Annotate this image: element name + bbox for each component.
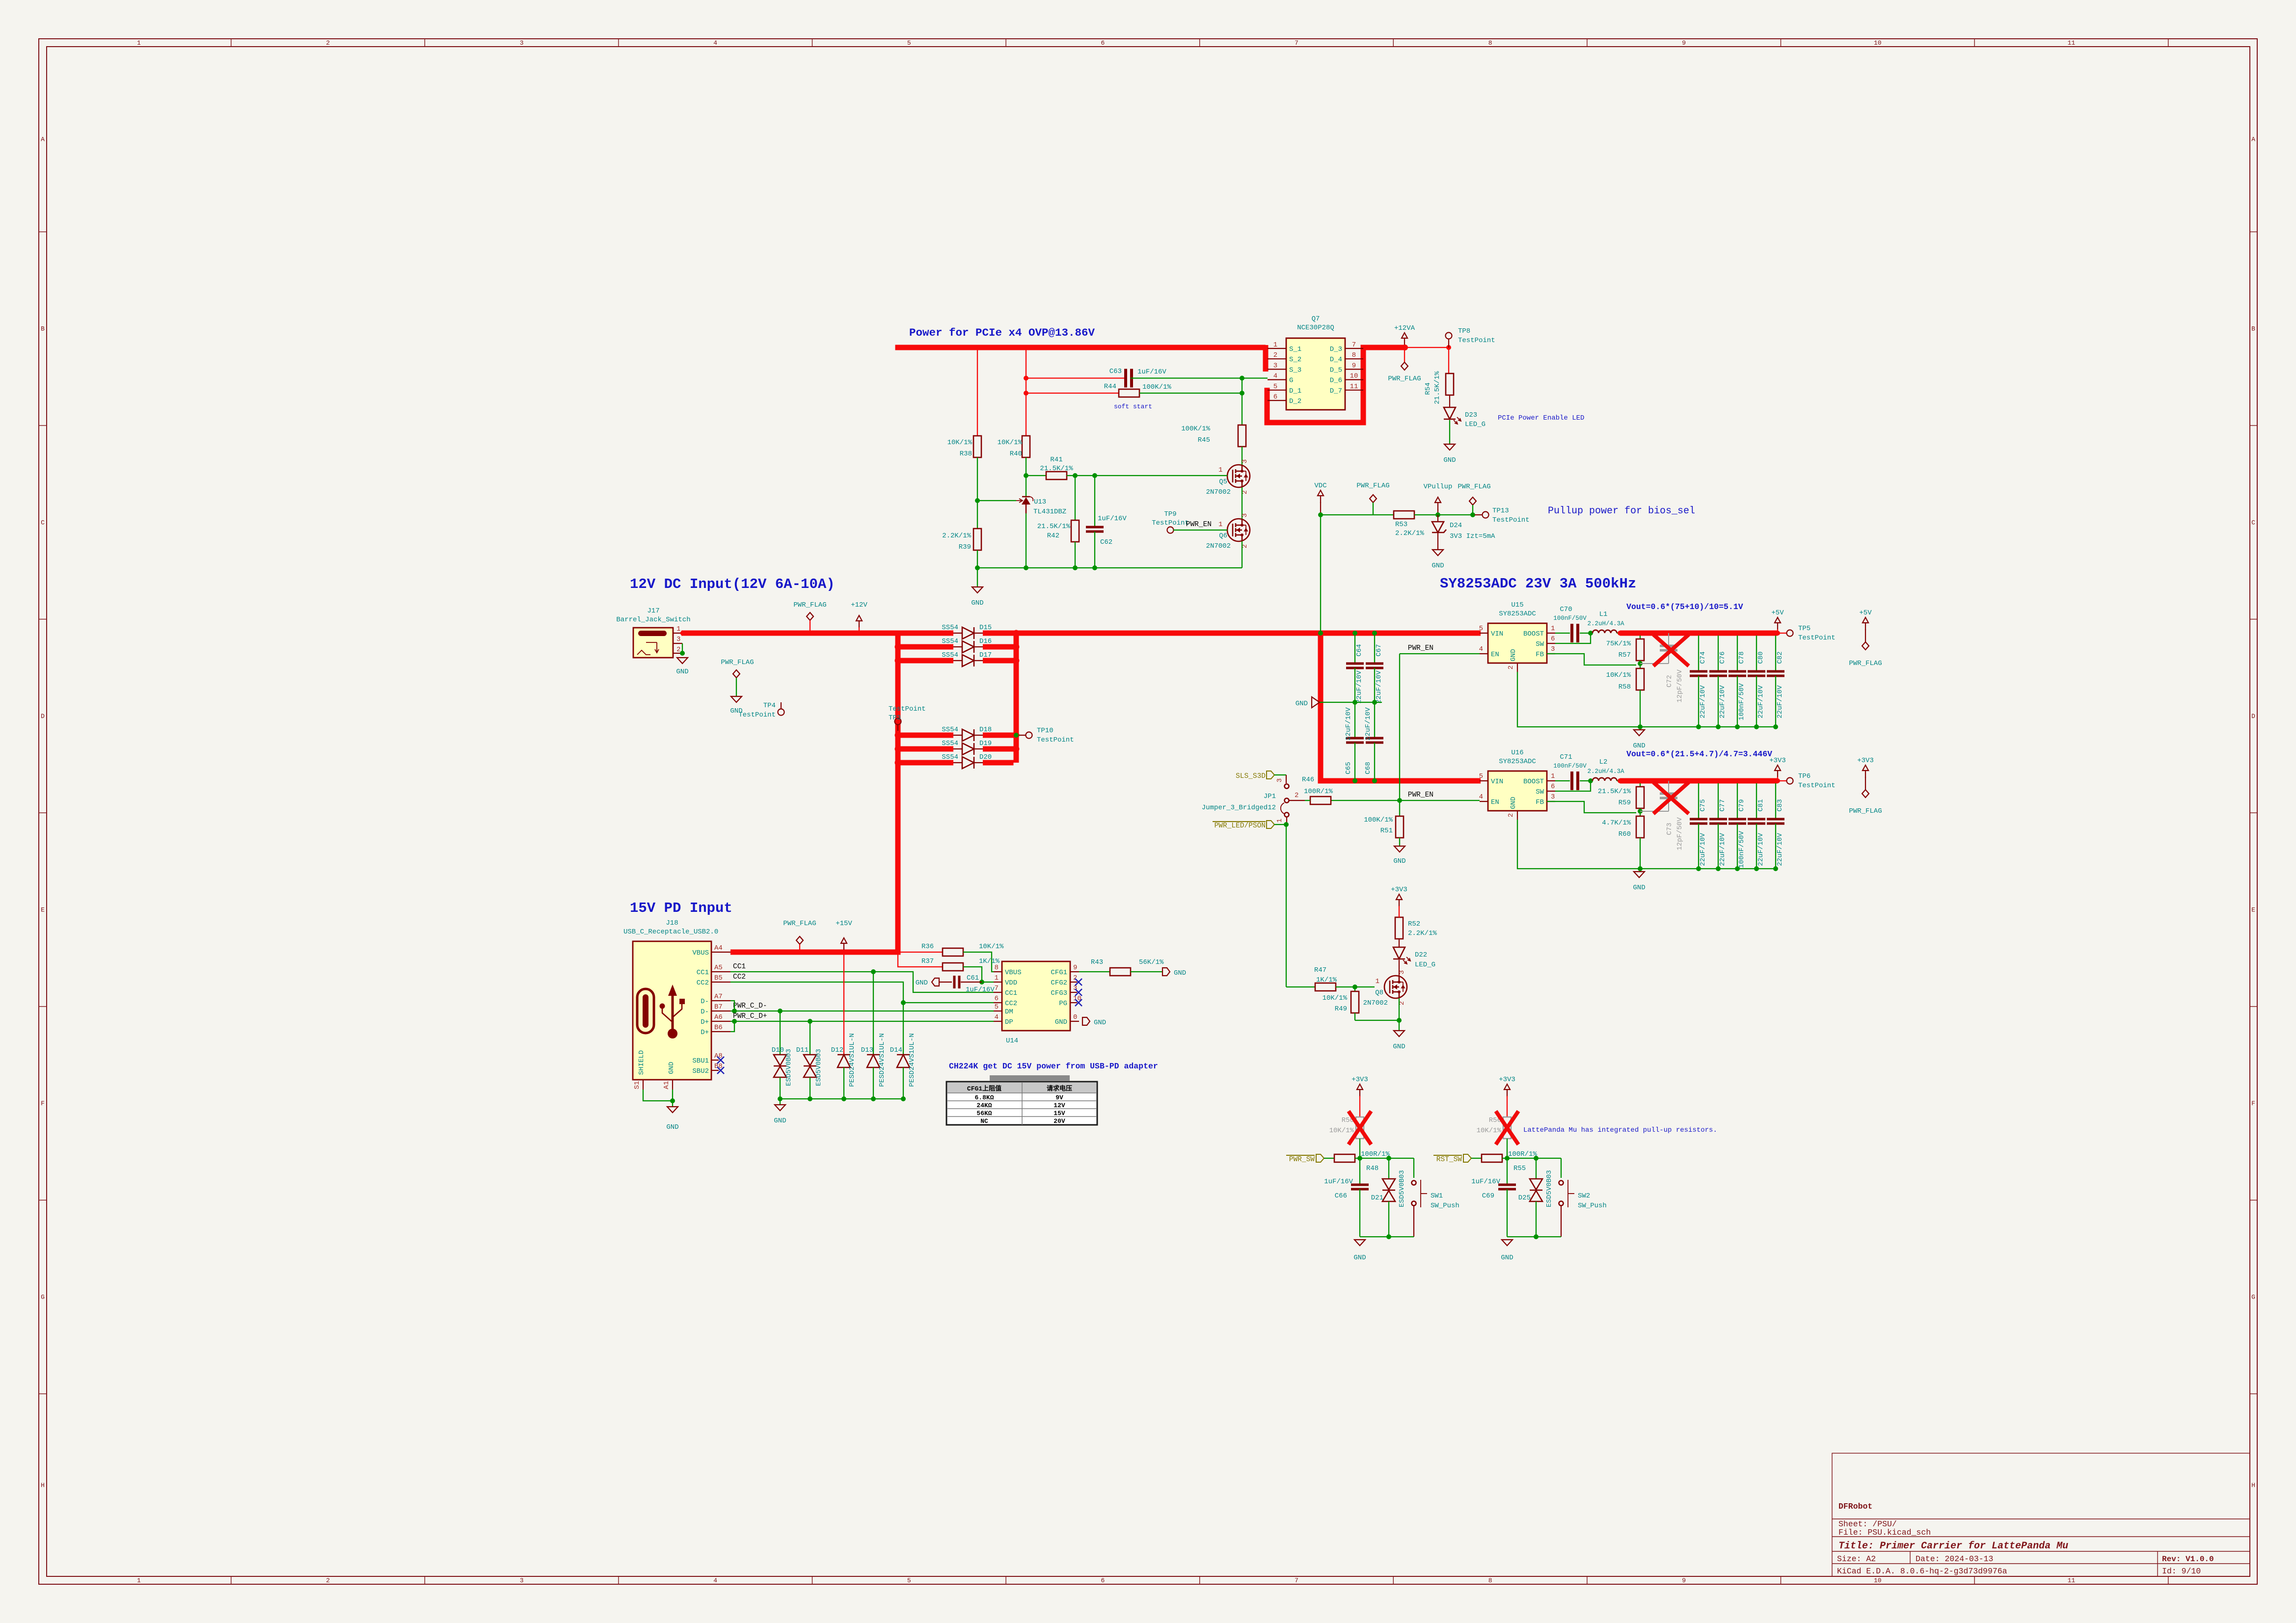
junction C83 bottom: [1773, 866, 1778, 871]
svg-text:S1: S1: [633, 1081, 641, 1090]
wire Q5 source to Q6 drain: [1242, 487, 1243, 519]
svg-text:A7: A7: [714, 993, 723, 1001]
junction ESD rail: [901, 1096, 906, 1101]
svg-text:D-: D-: [701, 1008, 709, 1016]
pin U14-9 CFG1: [1051, 964, 1079, 977]
svg-text:10K/1%: 10K/1%: [979, 943, 1004, 951]
svg-text:F: F: [41, 1100, 45, 1107]
svg-text:2: 2: [1295, 792, 1298, 799]
inductor L1 2.2uH/4.3A: [1587, 611, 1624, 633]
svg-text:SW2: SW2: [1578, 1192, 1590, 1200]
pin J18-S1 SHIELD: [633, 1050, 646, 1090]
svg-text:7: 7: [1295, 39, 1298, 47]
junction J18 gnd: [670, 1098, 675, 1103]
svg-text:C83: C83: [1776, 799, 1784, 811]
resistor R40 10K/1%: [998, 436, 1030, 458]
svg-text:C78: C78: [1738, 651, 1746, 664]
svg-text:C82: C82: [1776, 651, 1784, 664]
svg-text:R47: R47: [1314, 966, 1326, 974]
svg-text:Vout=0.6*(21.5+4.7)/4.7=3.446V: Vout=0.6*(21.5+4.7)/4.7=3.446V: [1626, 749, 1772, 759]
pin Q7-1 S_1: [1268, 341, 1301, 353]
svg-text:C68: C68: [1364, 762, 1372, 774]
capacitor C68 22uF/10V: [1364, 702, 1383, 781]
capacitor C70 100nF/50V: [1553, 606, 1591, 642]
wire thick D18 row: [898, 733, 1016, 738]
svg-text:S_2: S_2: [1289, 356, 1301, 364]
svg-text:75K/1%: 75K/1%: [1606, 640, 1631, 648]
wire R50 to switch node: [1359, 1139, 1360, 1158]
svg-text:1uF/16V: 1uF/16V: [966, 986, 995, 994]
svg-text:TP3: TP3: [889, 714, 901, 722]
svg-text:VDD: VDD: [1005, 979, 1017, 987]
svg-text:DFRobot: DFRobot: [1838, 1502, 1872, 1511]
svg-text:+12V: +12V: [851, 601, 867, 609]
power symbol +12V: [851, 601, 867, 633]
svg-text:1uF/16V: 1uF/16V: [1098, 515, 1127, 523]
wire switch node row: [1502, 1158, 1561, 1159]
svg-text:C66: C66: [1335, 1192, 1347, 1200]
svg-text:R54: R54: [1424, 382, 1432, 395]
ground under R51: [1393, 838, 1405, 865]
pin U15-4 EN: [1479, 645, 1499, 659]
capacitor C61 1uF/16V: [939, 974, 995, 994]
global label GND at R43: [1162, 968, 1186, 977]
testpoint TP9 with PWR_EN: [1152, 510, 1227, 533]
svg-text:F: F: [2251, 1100, 2255, 1107]
svg-text:3: 3: [1551, 645, 1555, 653]
power symbol +3V3 above R56: [1499, 1076, 1515, 1117]
svg-text:2: 2: [1507, 665, 1515, 669]
junction U13 ref: [975, 498, 980, 503]
svg-text:TestPoint: TestPoint: [1798, 634, 1836, 642]
svg-text:A5: A5: [714, 964, 723, 972]
svg-text:R49: R49: [1335, 1005, 1347, 1013]
svg-text:1: 1: [137, 39, 141, 47]
junction C62 top: [1092, 473, 1097, 478]
junction Q8 source gnd: [1397, 1018, 1402, 1023]
svg-text:10: 10: [1350, 372, 1358, 380]
capacitor C80 22uF/10V: [1748, 633, 1765, 727]
wire thick U16 VIN feed: [1318, 631, 1481, 781]
pin U14-2 CFG2: [1051, 974, 1077, 987]
svg-text:8: 8: [1488, 39, 1492, 47]
svg-text:100nF/50V: 100nF/50V: [1553, 763, 1587, 770]
pin U14-3 CFG3: [1051, 984, 1077, 997]
svg-text:21.5K/1%: 21.5K/1%: [1040, 465, 1073, 473]
svg-text:100nF/50V: 100nF/50V: [1738, 831, 1746, 868]
junction rail R39: [975, 565, 980, 570]
svg-text:R58: R58: [1619, 683, 1631, 691]
resistor R44 100K/1%: [1026, 383, 1242, 397]
resistor R57 75K/1%: [1606, 633, 1644, 661]
wire VDD stub: [982, 982, 994, 983]
resistor R51 100K/1%: [1364, 800, 1404, 838]
junction C64-C65: [1352, 700, 1357, 705]
capacitor C79 100nF/50V: [1729, 781, 1746, 869]
junction TP8: [1446, 345, 1451, 350]
no-connect X CFG3: [1075, 989, 1082, 996]
capacitor C77 22uF/10V: [1709, 781, 1727, 869]
svg-text:ESD5V0B03: ESD5V0B03: [815, 1049, 823, 1086]
svg-text:G: G: [1289, 377, 1293, 385]
svg-text:GND: GND: [666, 1123, 678, 1131]
svg-text:4: 4: [713, 1577, 717, 1584]
wire CC2: [730, 982, 994, 1003]
svg-text:ESD5V0B03: ESD5V0B03: [785, 1049, 793, 1086]
wire R47 to Q8 gate: [1336, 986, 1375, 987]
mosfet Q6 2N7002: [1206, 513, 1250, 550]
svg-text:BOOST: BOOST: [1523, 778, 1544, 786]
junction C66 top: [1357, 1156, 1362, 1161]
ic U16 SY8253ADC body: [1488, 771, 1547, 811]
junction ESD rail: [841, 1096, 846, 1101]
svg-text:GND: GND: [1501, 1254, 1513, 1262]
junction rail R42: [1073, 565, 1078, 570]
led D22 LED_G: [1393, 947, 1435, 976]
svg-text:PWR_FLAG: PWR_FLAG: [1356, 482, 1389, 490]
junction D- join: [732, 1009, 737, 1013]
svg-text:ESD5V0B03: ESD5V0B03: [1398, 1170, 1406, 1207]
svg-text:1: 1: [676, 625, 680, 633]
svg-text:C71: C71: [1560, 753, 1572, 761]
junction R42 top: [1073, 473, 1078, 478]
capacitor C63 1uF/16V: [1026, 368, 1242, 388]
junction C75 top: [1696, 778, 1701, 783]
resistor R41 21.5K/1%: [1026, 456, 1095, 479]
svg-text:GND: GND: [1393, 1043, 1405, 1051]
svg-text:15V: 15V: [1053, 1110, 1065, 1117]
svg-text:D-: D-: [701, 998, 709, 1006]
svg-text:SBU2: SBU2: [692, 1067, 709, 1075]
wire to TP13: [1438, 514, 1475, 515]
power symbol +3V3 at TP6: [1769, 757, 1786, 781]
svg-text:+15V: +15V: [836, 920, 852, 928]
ground J18: [666, 1107, 678, 1131]
svg-text:1K/1%: 1K/1%: [1316, 976, 1337, 984]
junction C82 top: [1773, 631, 1778, 636]
pin U16-3 FB: [1536, 793, 1555, 806]
pin U14-7 CC1: [994, 984, 1017, 997]
svg-text:DM: DM: [1005, 1008, 1013, 1016]
hierarchical label PWR_LED/PSON: [1213, 821, 1286, 830]
svg-text:R59: R59: [1619, 799, 1631, 807]
svg-text:VIN: VIN: [1491, 630, 1503, 638]
pin J18-B7 D-: [701, 1003, 730, 1016]
junction R49 top: [1352, 984, 1357, 989]
junction rail R40: [1024, 565, 1028, 570]
svg-text:3: 3: [520, 1577, 524, 1584]
tvs diode D10 ESD5V0B03: [772, 1011, 793, 1099]
svg-text:3V3 Izt=5mA: 3V3 Izt=5mA: [1450, 532, 1495, 540]
junction PWR_FLAG right: [1470, 512, 1475, 517]
junction C81 top: [1754, 778, 1759, 783]
svg-text:+12VA: +12VA: [1394, 324, 1415, 332]
wire thick D20 row: [898, 760, 1014, 766]
svg-text:soft start: soft start: [1114, 403, 1152, 410]
hierarchical label PWR_SW: [1286, 1154, 1334, 1164]
svg-text:1: 1: [1376, 978, 1379, 985]
resistor R42 21.5K/1%: [1037, 476, 1079, 568]
pin J18-A6 D+: [701, 1013, 730, 1026]
pin U16-5 VIN: [1479, 772, 1504, 786]
svg-text:12V DC Input(12V 6A-10A): 12V DC Input(12V 6A-10A): [630, 576, 835, 592]
svg-text:VIN: VIN: [1491, 778, 1503, 786]
testpoint TP3: [889, 705, 926, 731]
svg-text:PESD24VS1UL-N: PESD24VS1UL-N: [908, 1033, 916, 1087]
svg-text:Jumper_3_Bridged12: Jumper_3_Bridged12: [1202, 804, 1276, 812]
svg-text:3: 3: [1276, 778, 1284, 782]
svg-text:R39: R39: [959, 543, 971, 551]
svg-text:0: 0: [1073, 1013, 1077, 1021]
power symbol VPullup: [1424, 483, 1453, 515]
junction D21 top: [1386, 1156, 1391, 1161]
junction C67 top: [1372, 631, 1377, 636]
svg-text:1: 1: [1218, 466, 1222, 474]
svg-text:R45: R45: [1198, 436, 1210, 444]
svg-text:1: 1: [1218, 521, 1222, 529]
junction main-diode-vertical: [1013, 630, 1020, 637]
svg-text:9: 9: [1682, 1577, 1686, 1584]
wire D- join: [730, 1001, 734, 1011]
junction VPullup: [1435, 512, 1440, 517]
pin J18-A1 GND: [663, 1062, 675, 1090]
diode D13 PESD24VS1UL-N: [861, 972, 886, 1099]
svg-text:21.5K/1%: 21.5K/1%: [1433, 371, 1441, 404]
junction C80 bottom: [1754, 724, 1759, 729]
junction R44 output: [1240, 391, 1244, 396]
mosfet Q7 NCE30P28Q body: [1286, 338, 1345, 410]
svg-text:SBU1: SBU1: [692, 1057, 709, 1065]
svg-text:+3V3: +3V3: [1499, 1076, 1515, 1084]
svg-text:E: E: [41, 906, 45, 914]
svg-text:3: 3: [1551, 793, 1555, 801]
junction U16-feed top: [1318, 631, 1323, 636]
junction C79 top: [1735, 778, 1740, 783]
wire thick U15 output +5V rail: [1620, 631, 1778, 636]
capacitor C69 1uF/16V: [1471, 1158, 1516, 1237]
svg-text:7: 7: [995, 984, 999, 992]
svg-text:GND: GND: [1055, 1018, 1067, 1026]
junction R58 rail: [1638, 724, 1643, 729]
junction DM-D10: [778, 1009, 783, 1013]
junction C63 row: [1024, 376, 1028, 381]
wire ESD gnd rail: [780, 1098, 903, 1099]
ground U15: [1633, 730, 1645, 750]
svg-text:Vout=0.6*(75+10)/10=5.1V: Vout=0.6*(75+10)/10=5.1V: [1626, 602, 1743, 612]
svg-text:TestPoint: TestPoint: [889, 705, 926, 713]
svg-text:PWR_SW: PWR_SW: [1289, 1156, 1315, 1164]
diode D18 SS54: [942, 726, 992, 741]
svg-text:100R/1%: 100R/1%: [1361, 1150, 1390, 1158]
svg-text:+3V3: +3V3: [1351, 1076, 1368, 1084]
junction TP5: [1775, 631, 1780, 636]
mosfet Q8 2N7002: [1363, 970, 1407, 1007]
svg-text:C70: C70: [1560, 606, 1572, 613]
svg-text:A1: A1: [663, 1081, 671, 1090]
svg-text:D24: D24: [1450, 522, 1462, 530]
wire R40 column red: [1026, 347, 1026, 436]
svg-text:SS54: SS54: [942, 651, 958, 659]
svg-text:4: 4: [713, 39, 717, 47]
svg-text:6: 6: [995, 995, 999, 1003]
svg-text:CFG3: CFG3: [1051, 989, 1067, 997]
svg-text:GND: GND: [1510, 649, 1517, 661]
junction CC2-D14: [901, 1000, 906, 1005]
power symbol VDC: [1314, 482, 1326, 515]
svg-text:+3V3: +3V3: [1391, 886, 1407, 894]
junction C79 bottom: [1735, 866, 1740, 871]
svg-text:D21: D21: [1371, 1194, 1383, 1202]
resistor R58 10K/1%: [1606, 668, 1644, 727]
svg-text:PWR_EN: PWR_EN: [1408, 791, 1433, 799]
svg-text:GND: GND: [1094, 1019, 1106, 1027]
svg-text:6: 6: [1101, 1577, 1105, 1584]
wire U15 SW to boost cap: [1555, 633, 1591, 643]
svg-text:L1: L1: [1599, 611, 1608, 618]
junction C78 bottom: [1735, 724, 1740, 729]
svg-text:EN: EN: [1491, 651, 1499, 659]
svg-text:D_7: D_7: [1330, 387, 1342, 395]
junction C68 bottom: [1372, 778, 1377, 783]
wire R45 to Q5 drain: [1242, 447, 1243, 465]
pin U15-2 GND: [1507, 649, 1517, 672]
svg-text:JP1: JP1: [1264, 793, 1276, 800]
hierarchical label RST_SW: [1433, 1154, 1482, 1164]
svg-text:R55: R55: [1513, 1165, 1526, 1172]
svg-text:Q5: Q5: [1219, 478, 1227, 486]
svg-text:2.2uH/4.3A: 2.2uH/4.3A: [1587, 768, 1624, 775]
svg-text:GND: GND: [1432, 562, 1444, 570]
wire thick input trunk vertical: [895, 631, 901, 953]
junction trunk-D17: [895, 658, 901, 664]
svg-text:21.5K/1%: 21.5K/1%: [1037, 523, 1071, 531]
junction D18 vertical: [1013, 732, 1020, 739]
svg-text:SY8253ADC 23V 3A 500kHz: SY8253ADC 23V 3A 500kHz: [1440, 576, 1636, 592]
svg-text:PWR_FLAG: PWR_FLAG: [1849, 807, 1882, 815]
capacitor C72 12pF DNP: [1640, 633, 1684, 703]
svg-text:D_1: D_1: [1289, 387, 1301, 395]
resistor R48 100R/1%: [1334, 1150, 1390, 1172]
svg-text:C77: C77: [1719, 799, 1727, 811]
svg-text:4: 4: [1273, 372, 1277, 380]
resistor R47 1K/1%: [1286, 966, 1337, 991]
pin U14-10 PG: [1059, 995, 1081, 1008]
junction trunk-D19: [895, 746, 901, 752]
pin J18-A5 CC1: [697, 964, 730, 977]
testpoint TP5: [1778, 625, 1836, 642]
power symbol +3V3 flag branch: [1849, 757, 1882, 815]
pin U14-5 DM: [994, 1003, 1013, 1016]
resistor R36 10K/1%: [898, 943, 1004, 972]
svg-text:CC1: CC1: [733, 963, 746, 971]
junction D21 bottom: [1386, 1234, 1391, 1239]
connector J17 Barrel_Jack_Switch: [633, 628, 673, 658]
svg-text:10K/1%: 10K/1%: [1477, 1127, 1502, 1135]
svg-text:6: 6: [1101, 39, 1105, 47]
svg-text:TP9: TP9: [1164, 510, 1176, 518]
pin U15-1 BOOST: [1523, 625, 1555, 638]
svg-text:ESD5V0B03: ESD5V0B03: [1545, 1170, 1553, 1207]
svg-text:5: 5: [907, 1577, 911, 1584]
svg-text:TP4: TP4: [763, 702, 776, 710]
svg-text:R38: R38: [960, 450, 972, 458]
svg-text:+5V: +5V: [1771, 609, 1784, 617]
svg-text:22uF/10V: 22uF/10V: [1375, 670, 1383, 704]
wire U15 FB net: [1547, 654, 1636, 665]
junction U16 boost: [1588, 778, 1593, 783]
svg-text:D12: D12: [831, 1046, 843, 1054]
svg-text:10K/1%: 10K/1%: [1329, 1127, 1354, 1135]
svg-text:PG: PG: [1059, 1000, 1067, 1008]
wire thick diode output vertical: [1014, 631, 1019, 763]
ground under D24: [1432, 550, 1444, 570]
svg-text:GND: GND: [1633, 742, 1645, 750]
junction U15 boost: [1588, 631, 1593, 636]
ic U14 CH224K body: [1002, 961, 1070, 1031]
svg-text:R37: R37: [921, 958, 934, 965]
pin J18-B5 CC2: [697, 974, 730, 987]
junction C78 top: [1735, 631, 1740, 636]
svg-text:D15: D15: [979, 624, 992, 632]
pin Q7-11 D_7: [1330, 383, 1363, 395]
svg-text:D11: D11: [796, 1046, 809, 1054]
svg-text:U15: U15: [1511, 601, 1523, 609]
svg-text:请求电压: 请求电压: [1047, 1085, 1072, 1092]
svg-text:1uF/16V: 1uF/16V: [1324, 1178, 1353, 1186]
power flag bios_sel left: [1356, 482, 1389, 515]
svg-text:10: 10: [1874, 1577, 1882, 1584]
junction C82 bottom: [1773, 724, 1778, 729]
wire PWR_EN to U15 EN: [1400, 653, 1480, 654]
svg-text:1: 1: [1551, 772, 1555, 780]
svg-text:11: 11: [2068, 39, 2076, 47]
capacitor C66 1uF/16V: [1324, 1158, 1369, 1237]
no-connect X SBU2: [717, 1067, 724, 1074]
power symbol +5V flag branch: [1849, 609, 1882, 667]
wire CC1: [730, 972, 994, 992]
svg-text:C79: C79: [1738, 799, 1746, 811]
svg-text:100K/1%: 100K/1%: [1181, 425, 1210, 433]
testpoint TP13: [1475, 507, 1530, 524]
svg-text:11: 11: [2068, 1577, 2076, 1584]
svg-text:TP5: TP5: [1798, 625, 1810, 633]
svg-text:21.5K/1%: 21.5K/1%: [1598, 788, 1631, 796]
svg-text:TestPoint: TestPoint: [1458, 337, 1495, 345]
svg-text:PESD24VS1UL-N: PESD24VS1UL-N: [878, 1033, 886, 1087]
svg-text:R42: R42: [1047, 532, 1059, 540]
svg-text:U13: U13: [1034, 498, 1046, 506]
power flag VBUS: [783, 920, 816, 952]
junction C77 bottom: [1716, 866, 1721, 871]
svg-text:GND: GND: [1296, 700, 1308, 708]
wire VDC vertical to trunk: [1320, 515, 1321, 633]
junction C81 bottom: [1754, 866, 1759, 871]
svg-text:22uF/10V: 22uF/10V: [1699, 685, 1707, 718]
power symbol +5V at TP5: [1771, 609, 1784, 633]
capacitor C75 22uF/10V: [1690, 781, 1707, 869]
junction trunk-D20: [895, 760, 901, 766]
svg-text:NCE30P28Q: NCE30P28Q: [1297, 324, 1334, 332]
svg-text:R57: R57: [1619, 651, 1631, 659]
svg-text:5: 5: [995, 1003, 999, 1011]
table CH224K CFG values: [946, 1075, 1097, 1125]
pin Q7-9 D_5: [1330, 362, 1363, 374]
svg-text:CC1: CC1: [697, 969, 709, 977]
svg-text:TestPoint: TestPoint: [1037, 736, 1074, 744]
wire thick D17 row: [900, 658, 1016, 664]
wire U16 gnd rail: [1517, 820, 1776, 869]
junction TP6: [1775, 778, 1780, 783]
